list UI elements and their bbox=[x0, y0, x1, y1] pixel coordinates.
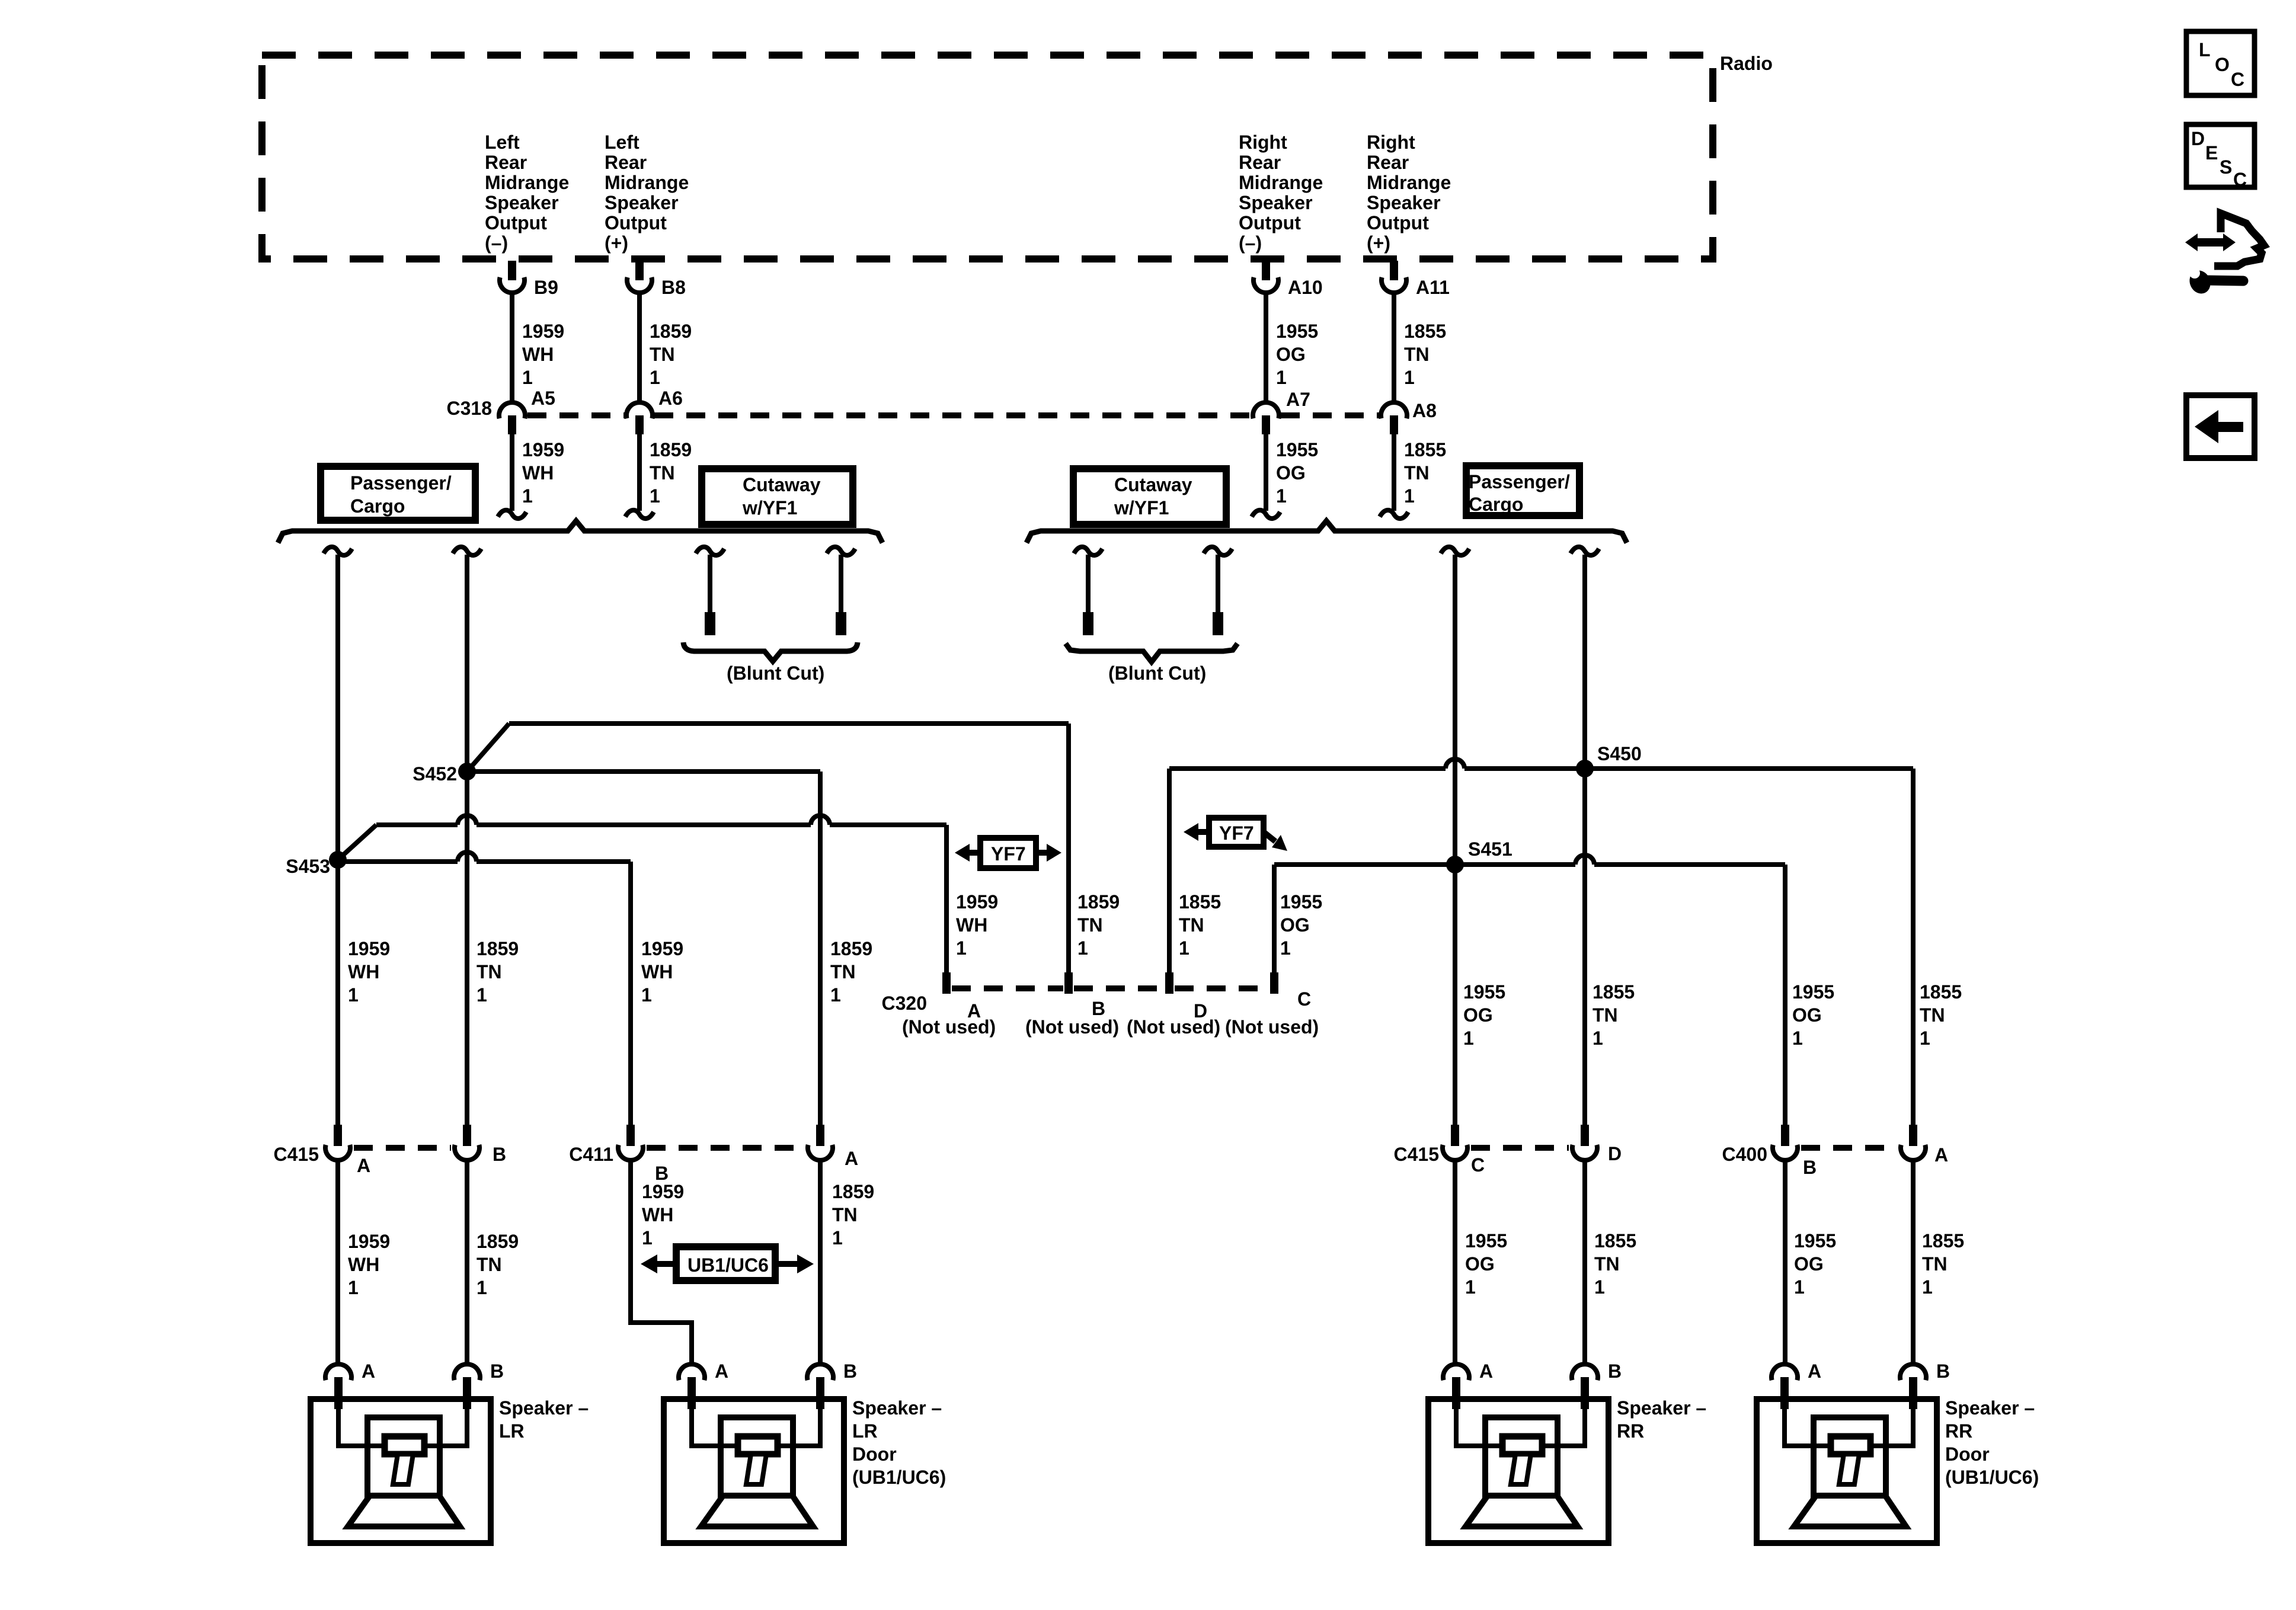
speaker RR Door pin B bbox=[1909, 1377, 1917, 1409]
svg-text:S452: S452 bbox=[412, 763, 457, 785]
svg-text:S: S bbox=[2220, 156, 2232, 178]
splice S453 bbox=[329, 851, 347, 869]
svg-text:LR: LR bbox=[499, 1420, 525, 1442]
wrench bbox=[2186, 267, 2214, 297]
wire 1859 TN C415-B to speaker LR B bbox=[465, 1161, 469, 1363]
svg-text:C: C bbox=[1471, 1154, 1485, 1176]
blunt cut wire at x=1198 bbox=[708, 555, 712, 612]
svg-text:Door: Door bbox=[852, 1443, 897, 1465]
blunt cut wire at x=2055 bbox=[1216, 555, 1220, 612]
branch wire continuation symbol at (2674,930) bbox=[1571, 547, 1599, 555]
C415 terminal D bbox=[1572, 1145, 1597, 1160]
svg-text:OG: OG bbox=[1794, 1253, 1824, 1275]
svg-text:1955: 1955 bbox=[1276, 321, 1318, 342]
svg-text:1859: 1859 bbox=[650, 439, 692, 460]
speaker RR bbox=[1428, 1399, 1609, 1543]
wire 1855 TN down to C400-A bbox=[1911, 769, 1916, 1125]
svg-text:1959: 1959 bbox=[348, 1231, 390, 1252]
blunt cut wire at x=1836 bbox=[1086, 555, 1091, 612]
C415 pin B male pin bbox=[463, 1125, 471, 1146]
svg-text:1: 1 bbox=[1922, 1276, 1933, 1298]
svg-text:A10: A10 bbox=[1288, 277, 1323, 298]
wire 1955 OG down to C320-C bbox=[1272, 865, 1277, 972]
svg-text:(Blunt Cut): (Blunt Cut) bbox=[727, 662, 824, 684]
svg-text:A5: A5 bbox=[531, 388, 555, 409]
C400 pin A male pin bbox=[1909, 1125, 1917, 1146]
wire 1959 WH brace to C415-A through S453 bbox=[335, 555, 340, 1125]
wire 1855 TN C320-D to S450 to C400-A horizontal bbox=[1169, 759, 1913, 769]
svg-text:1: 1 bbox=[1404, 485, 1415, 507]
svg-text:1959: 1959 bbox=[642, 1181, 684, 1202]
svg-text:C: C bbox=[1297, 988, 1311, 1010]
svg-text:1859: 1859 bbox=[832, 1181, 874, 1202]
box Passenger/Cargo right bbox=[1466, 466, 1579, 516]
svg-text:1: 1 bbox=[650, 485, 660, 507]
svg-text:A11: A11 bbox=[1416, 277, 1450, 298]
svg-text:A: A bbox=[1479, 1361, 1493, 1382]
branch wire continuation symbol at (1198,930) bbox=[696, 547, 724, 555]
svg-text:TN: TN bbox=[650, 344, 675, 365]
svg-text:OG: OG bbox=[1276, 344, 1306, 365]
branch wire continuation symbol at (788,930) bbox=[453, 547, 481, 555]
svg-text:RR: RR bbox=[1945, 1420, 1972, 1442]
svg-text:Radio: Radio bbox=[1720, 53, 1773, 74]
svg-text:Door: Door bbox=[1945, 1443, 1990, 1465]
svg-text:1855: 1855 bbox=[1593, 981, 1635, 1003]
svg-text:B9: B9 bbox=[534, 277, 558, 298]
svg-text:B: B bbox=[1608, 1361, 1622, 1382]
C415 pin C male pin bbox=[1451, 1125, 1459, 1146]
back arrow box bbox=[2186, 395, 2255, 458]
wire 1955 OG below C318 bbox=[1264, 434, 1268, 511]
svg-text:Speaker: Speaker bbox=[485, 192, 559, 213]
Radio dashed box bbox=[262, 55, 1713, 259]
svg-text:C400: C400 bbox=[1722, 1144, 1768, 1165]
svg-text:OG: OG bbox=[1463, 1004, 1493, 1026]
svg-text:w/YF1: w/YF1 bbox=[742, 497, 797, 518]
speaker RR pin B bbox=[1581, 1377, 1589, 1409]
wire continuation symbol at (2136,868) bbox=[1252, 510, 1280, 518]
radio terminal A10 bbox=[1253, 277, 1278, 293]
speaker LR pin A bbox=[334, 1377, 343, 1409]
svg-text:1859: 1859 bbox=[477, 938, 519, 959]
svg-text:Speaker –: Speaker – bbox=[852, 1397, 942, 1419]
box Cutaway w/YF1 right bbox=[1073, 469, 1226, 524]
svg-text:Output: Output bbox=[485, 212, 547, 233]
svg-text:(–): (–) bbox=[1239, 232, 1262, 254]
C415 dashed connector line bbox=[1471, 1145, 1569, 1151]
speaker LR Door pin B bbox=[816, 1377, 824, 1409]
svg-text:(+): (+) bbox=[1367, 232, 1390, 254]
svg-text:Speaker –: Speaker – bbox=[1945, 1397, 2035, 1419]
svg-text:YF7: YF7 bbox=[1219, 822, 1254, 844]
svg-text:YF7: YF7 bbox=[991, 843, 1026, 865]
DESC reference box bbox=[2186, 124, 2255, 187]
svg-text:1855: 1855 bbox=[1594, 1230, 1636, 1251]
svg-text:1855: 1855 bbox=[1920, 981, 1962, 1003]
svg-text:(Not used): (Not used) bbox=[902, 1016, 996, 1038]
diagonal wire from S453 bbox=[338, 825, 376, 860]
wire 1959 WH radio to C318 bbox=[510, 295, 514, 401]
svg-text:Speaker –: Speaker – bbox=[1617, 1397, 1706, 1419]
C400 terminal A bbox=[1901, 1145, 1926, 1160]
branch wire continuation symbol at (1836,930) bbox=[1074, 547, 1102, 555]
speaker RR terminal A bbox=[1443, 1364, 1469, 1380]
svg-text:A6: A6 bbox=[658, 388, 683, 409]
svg-text:OG: OG bbox=[1276, 462, 1306, 484]
svg-text:1: 1 bbox=[1593, 1028, 1603, 1049]
C411 dashed connector line bbox=[647, 1145, 804, 1151]
brace left harness variants bbox=[278, 521, 882, 543]
svg-text:1955: 1955 bbox=[1280, 891, 1322, 913]
C318 terminal A5 bbox=[499, 402, 525, 418]
wire 1955 OG C415-C to speaker RR A bbox=[1453, 1161, 1457, 1363]
C400 terminal B bbox=[1773, 1145, 1798, 1160]
svg-text:1959: 1959 bbox=[641, 938, 683, 959]
radio pin B9 male pin bbox=[508, 261, 516, 280]
svg-text:1959: 1959 bbox=[522, 439, 564, 460]
box Cutaway w/YF1 left bbox=[702, 469, 853, 524]
svg-text:B: B bbox=[493, 1144, 506, 1165]
wire 1959 WH S453 to C320-A horizontal bbox=[376, 815, 946, 825]
svg-text:TN: TN bbox=[1179, 914, 1204, 936]
radio pin B8 male pin bbox=[635, 261, 644, 280]
svg-text:A: A bbox=[1934, 1144, 1948, 1166]
svg-text:A: A bbox=[362, 1361, 375, 1382]
svg-text:Output: Output bbox=[1239, 212, 1301, 233]
splice S452 bbox=[458, 763, 476, 780]
YF7 option flag left bbox=[980, 838, 1036, 868]
svg-text:Midrange: Midrange bbox=[1239, 172, 1323, 193]
wire 1859 TN down to C320-B bbox=[1066, 724, 1071, 972]
wire 1955 OG radio to C318 bbox=[1264, 295, 1268, 401]
svg-text:1855: 1855 bbox=[1404, 321, 1446, 342]
speaker LR terminal A bbox=[325, 1364, 351, 1380]
svg-text:OG: OG bbox=[1465, 1253, 1495, 1275]
svg-text:A7: A7 bbox=[1286, 389, 1310, 410]
speaker RR terminal B bbox=[1572, 1364, 1598, 1380]
svg-text:1959: 1959 bbox=[348, 938, 390, 959]
wire 1955 OG down to C400-B bbox=[1783, 865, 1787, 1125]
C318 terminal A7 bbox=[1253, 402, 1279, 418]
svg-text:1: 1 bbox=[1465, 1276, 1476, 1298]
wire 1959 WH below C318 bbox=[510, 434, 514, 511]
svg-text:Speaker: Speaker bbox=[605, 192, 679, 213]
svg-text:1: 1 bbox=[477, 984, 487, 1006]
speaker LR pin B bbox=[463, 1377, 471, 1409]
C415 terminal C bbox=[1443, 1145, 1467, 1160]
svg-text:Rear: Rear bbox=[1239, 152, 1281, 173]
svg-text:1: 1 bbox=[1276, 485, 1287, 507]
C411 pin A male pin bbox=[816, 1125, 824, 1146]
svg-text:S453: S453 bbox=[286, 856, 330, 877]
svg-text:S451: S451 bbox=[1468, 838, 1512, 860]
svg-text:UB1/UC6: UB1/UC6 bbox=[687, 1254, 769, 1276]
svg-text:C: C bbox=[2233, 169, 2247, 190]
C320 pin B bbox=[1064, 972, 1073, 994]
svg-text:Passenger/: Passenger/ bbox=[1469, 471, 1570, 492]
C411 pin B male pin bbox=[626, 1125, 635, 1146]
UB1/UC6 option flag bbox=[676, 1247, 775, 1281]
svg-text:1: 1 bbox=[522, 485, 533, 507]
svg-text:RR: RR bbox=[1617, 1420, 1644, 1442]
svg-text:(–): (–) bbox=[485, 232, 508, 254]
radio terminal A11 bbox=[1382, 277, 1406, 293]
svg-text:1: 1 bbox=[1794, 1276, 1805, 1298]
wire 1859 TN S452 to C411-A horizontal bbox=[467, 769, 820, 774]
svg-text:A: A bbox=[1808, 1361, 1821, 1382]
wire 1855 TN radio to C318 bbox=[1392, 295, 1396, 401]
svg-text:WH: WH bbox=[522, 344, 554, 365]
svg-text:1: 1 bbox=[1077, 937, 1088, 959]
svg-text:Speaker: Speaker bbox=[1239, 192, 1313, 213]
blunt cut terminal at x=1419 bbox=[836, 612, 846, 635]
svg-text:1855: 1855 bbox=[1179, 891, 1221, 913]
svg-text:B: B bbox=[490, 1361, 504, 1382]
svg-text:TN: TN bbox=[832, 1204, 858, 1225]
svg-text:TN: TN bbox=[1594, 1253, 1620, 1275]
svg-text:WH: WH bbox=[348, 961, 379, 982]
C318 terminal A6 bbox=[626, 402, 653, 418]
svg-text:1: 1 bbox=[1594, 1276, 1605, 1298]
svg-text:C318: C318 bbox=[447, 398, 493, 419]
wire 1859 TN radio to C318 bbox=[637, 295, 642, 401]
svg-text:B: B bbox=[1936, 1361, 1950, 1382]
radio terminal B9 bbox=[500, 277, 525, 293]
wire 1855 TN C400-A to door speaker B bbox=[1911, 1161, 1916, 1363]
wire 1959 WH C415-A to speaker LR A bbox=[335, 1161, 340, 1363]
wire 1859 TN down to C411-A bbox=[818, 772, 823, 1125]
blunt cut brace left bbox=[683, 642, 858, 661]
svg-text:WH: WH bbox=[642, 1204, 673, 1225]
svg-text:TN: TN bbox=[1920, 1004, 1945, 1026]
speaker LR terminal B bbox=[454, 1364, 480, 1380]
connector view / harness icon bbox=[2214, 213, 2264, 266]
C318 dashed connector line bbox=[527, 412, 1381, 418]
svg-text:TN: TN bbox=[1593, 1004, 1618, 1026]
svg-text:Cutaway: Cutaway bbox=[1114, 474, 1192, 495]
svg-text:Rear: Rear bbox=[605, 152, 647, 173]
svg-text:TN: TN bbox=[1922, 1253, 1948, 1275]
svg-text:Left: Left bbox=[485, 132, 520, 153]
speaker LR Door terminal A bbox=[679, 1364, 705, 1380]
splice S451 bbox=[1446, 856, 1464, 873]
C320 pin C bbox=[1270, 972, 1278, 994]
blunt cut wire at x=1419 bbox=[839, 555, 843, 612]
wire 1955 OG brace to C415-C through S451 bbox=[1453, 555, 1457, 1125]
svg-text:1: 1 bbox=[522, 367, 533, 388]
svg-text:Cargo: Cargo bbox=[1469, 494, 1523, 515]
svg-text:w/YF1: w/YF1 bbox=[1114, 497, 1169, 518]
svg-text:Right: Right bbox=[1367, 132, 1415, 153]
svg-text:1: 1 bbox=[642, 1227, 653, 1249]
svg-text:LR: LR bbox=[852, 1420, 878, 1442]
svg-text:Cargo: Cargo bbox=[350, 495, 405, 517]
speaker RR Door bbox=[1757, 1399, 1937, 1543]
svg-text:1955: 1955 bbox=[1463, 981, 1505, 1003]
svg-text:TN: TN bbox=[650, 462, 675, 484]
svg-text:E: E bbox=[2205, 142, 2218, 164]
speaker LR bbox=[311, 1399, 491, 1543]
svg-text:A: A bbox=[357, 1155, 370, 1176]
svg-text:1: 1 bbox=[1792, 1028, 1803, 1049]
C318 pin A8 male pin bbox=[1390, 415, 1398, 434]
branch wire continuation symbol at (2455,930) bbox=[1441, 547, 1469, 555]
C411 terminal B bbox=[618, 1145, 643, 1160]
C320 pin A bbox=[942, 972, 951, 994]
svg-text:1855: 1855 bbox=[1922, 1230, 1964, 1251]
C415 pin A male pin bbox=[334, 1125, 342, 1146]
C320 dashed connector line bbox=[952, 985, 1269, 991]
svg-text:Output: Output bbox=[1367, 212, 1429, 233]
svg-text:(Not used): (Not used) bbox=[1127, 1016, 1220, 1038]
svg-text:B8: B8 bbox=[661, 277, 686, 298]
svg-text:1: 1 bbox=[1404, 367, 1415, 388]
svg-text:D: D bbox=[1608, 1143, 1622, 1164]
wire continuation symbol at (864,868) bbox=[498, 510, 526, 518]
blunt cut terminal at x=2055 bbox=[1213, 612, 1223, 635]
blunt cut terminal at x=1198 bbox=[705, 612, 715, 635]
blunt cut brace right bbox=[1066, 644, 1237, 662]
svg-text:1: 1 bbox=[1179, 937, 1189, 959]
svg-text:1: 1 bbox=[641, 984, 652, 1006]
box Passenger/Cargo left bbox=[321, 466, 475, 520]
svg-text:C415: C415 bbox=[274, 1144, 319, 1165]
svg-text:L: L bbox=[2199, 39, 2211, 60]
branch wire continuation symbol at (570,930) bbox=[324, 547, 352, 555]
svg-text:1: 1 bbox=[1280, 937, 1291, 959]
svg-text:B: B bbox=[843, 1361, 857, 1382]
branch wire continuation symbol at (1419,930) bbox=[827, 547, 855, 555]
svg-text:S450: S450 bbox=[1597, 743, 1642, 764]
svg-text:TN: TN bbox=[1404, 462, 1430, 484]
svg-text:TN: TN bbox=[830, 961, 856, 982]
blunt cut terminal at x=1836 bbox=[1083, 612, 1093, 635]
svg-text:(+): (+) bbox=[605, 232, 628, 254]
svg-text:C320: C320 bbox=[882, 993, 928, 1014]
svg-text:1859: 1859 bbox=[477, 1231, 519, 1252]
svg-text:TN: TN bbox=[477, 1254, 502, 1275]
radio pin A10 male pin bbox=[1262, 261, 1270, 280]
wire continuation symbol at (1079,868) bbox=[625, 510, 654, 518]
svg-text:WH: WH bbox=[522, 462, 554, 484]
svg-text:1: 1 bbox=[477, 1277, 487, 1298]
svg-text:C411: C411 bbox=[569, 1144, 613, 1165]
svg-text:TN: TN bbox=[477, 961, 502, 982]
diagonal wire from S452 bbox=[467, 724, 509, 772]
svg-text:1: 1 bbox=[1463, 1028, 1474, 1049]
speaker RR pin A bbox=[1452, 1377, 1460, 1409]
svg-text:(UB1/UC6): (UB1/UC6) bbox=[852, 1467, 946, 1488]
svg-text:1955: 1955 bbox=[1794, 1230, 1836, 1251]
svg-text:A: A bbox=[715, 1361, 728, 1382]
wire 1959 WH S453 to C411-B horizontal bbox=[338, 852, 631, 862]
svg-text:Midrange: Midrange bbox=[485, 172, 569, 193]
svg-text:TN: TN bbox=[1077, 914, 1103, 936]
svg-text:OG: OG bbox=[1280, 914, 1310, 936]
C318 pin A5 male pin bbox=[508, 415, 516, 434]
speaker RR Door terminal B bbox=[1900, 1364, 1926, 1380]
speaker RR Door terminal A bbox=[1771, 1364, 1798, 1380]
svg-text:1: 1 bbox=[1920, 1028, 1930, 1049]
speaker RR Door pin A bbox=[1780, 1377, 1789, 1409]
svg-text:1: 1 bbox=[956, 937, 967, 959]
svg-text:Cutaway: Cutaway bbox=[743, 474, 821, 495]
svg-text:A: A bbox=[845, 1148, 858, 1169]
svg-text:(Not used): (Not used) bbox=[1225, 1016, 1319, 1038]
wire 1859 TN S452 to C320-B horizontal bbox=[509, 721, 1069, 726]
svg-text:1959: 1959 bbox=[522, 321, 564, 342]
radio pin A11 male pin bbox=[1390, 261, 1398, 280]
svg-text:WH: WH bbox=[641, 961, 673, 982]
svg-text:(Blunt Cut): (Blunt Cut) bbox=[1108, 662, 1206, 684]
svg-text:1: 1 bbox=[348, 1277, 359, 1298]
speaker LR Door bbox=[664, 1399, 844, 1543]
C415 terminal B bbox=[455, 1145, 479, 1160]
svg-text:Rear: Rear bbox=[1367, 152, 1409, 173]
svg-text:1859: 1859 bbox=[650, 321, 692, 342]
wire 1855 TN below C318 bbox=[1392, 434, 1396, 511]
svg-text:1955: 1955 bbox=[1276, 439, 1318, 460]
wire continuation symbol at (2352,868) bbox=[1380, 510, 1408, 518]
svg-text:C415: C415 bbox=[1394, 1144, 1440, 1165]
svg-text:Passenger/: Passenger/ bbox=[350, 472, 452, 494]
wire 1955 OG C400-B to door speaker A bbox=[1783, 1161, 1787, 1363]
svg-text:1959: 1959 bbox=[956, 891, 998, 913]
wire 1855 TN brace to C415-D through S450 bbox=[1582, 555, 1587, 1125]
svg-text:B: B bbox=[1803, 1157, 1817, 1178]
svg-text:WH: WH bbox=[956, 914, 987, 936]
brace right harness variants bbox=[1027, 521, 1627, 543]
wire 1859 TN C411-A to door speaker B bbox=[818, 1161, 823, 1363]
C415 terminal A bbox=[325, 1145, 350, 1160]
C411 terminal A bbox=[808, 1145, 833, 1160]
svg-text:(Not used): (Not used) bbox=[1025, 1016, 1119, 1038]
svg-text:Speaker –: Speaker – bbox=[499, 1397, 589, 1419]
svg-text:A8: A8 bbox=[1412, 400, 1437, 421]
svg-text:Midrange: Midrange bbox=[605, 172, 689, 193]
wire 1959 WH down to C320-A bbox=[944, 825, 949, 972]
svg-text:1: 1 bbox=[830, 984, 841, 1006]
wire 1959 WH down to C411-B bbox=[628, 862, 633, 1125]
svg-text:Midrange: Midrange bbox=[1367, 172, 1451, 193]
C400 dashed connector line bbox=[1801, 1145, 1897, 1151]
wire 1859 TN below C318 bbox=[637, 434, 642, 511]
branch wire continuation symbol at (2055,930) bbox=[1204, 547, 1232, 555]
C415 dashed connector line bbox=[354, 1145, 451, 1151]
svg-text:1: 1 bbox=[1276, 367, 1287, 388]
svg-text:1: 1 bbox=[832, 1227, 843, 1249]
svg-text:C: C bbox=[2231, 69, 2244, 90]
svg-text:Speaker: Speaker bbox=[1367, 192, 1441, 213]
speaker LR Door terminal B bbox=[807, 1364, 833, 1380]
svg-text:1855: 1855 bbox=[1404, 439, 1446, 460]
wire 1959 WH C411-B to door speaker A (jogged) bbox=[631, 1161, 692, 1363]
svg-text:Rear: Rear bbox=[485, 152, 527, 173]
C320 pin D bbox=[1165, 972, 1173, 994]
C415 pin D male pin bbox=[1581, 1125, 1589, 1146]
C318 pin A7 male pin bbox=[1262, 415, 1270, 434]
svg-text:1955: 1955 bbox=[1465, 1230, 1507, 1251]
svg-text:Right: Right bbox=[1239, 132, 1287, 153]
C318 pin A6 male pin bbox=[635, 415, 644, 434]
svg-text:O: O bbox=[2215, 54, 2230, 75]
svg-text:TN: TN bbox=[1404, 344, 1430, 365]
svg-text:1859: 1859 bbox=[830, 938, 872, 959]
svg-text:1955: 1955 bbox=[1792, 981, 1834, 1003]
svg-text:(UB1/UC6): (UB1/UC6) bbox=[1945, 1467, 2039, 1488]
wire 1859 TN brace to C415-B through S452 bbox=[465, 555, 469, 1125]
